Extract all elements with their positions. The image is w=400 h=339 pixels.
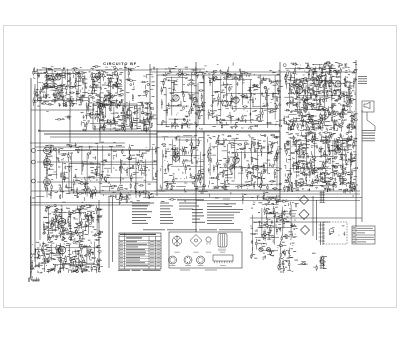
tube V15 output <box>58 246 66 254</box>
choke L4 lower <box>320 256 326 269</box>
wire psu rail 2 <box>253 221 330 223</box>
wire tube row 2 <box>37 161 157 163</box>
speaker symbol <box>364 102 370 109</box>
svg-text:CIRCUITO BF: CIRCUITO BF <box>103 61 137 66</box>
stage cluster col A bottom interior <box>160 135 205 191</box>
stage box top col A <box>157 75 204 125</box>
pilot lamp L1 <box>259 247 263 251</box>
pilot lamp L2 <box>266 247 270 251</box>
tube V6 col A top <box>173 95 179 101</box>
caption under tube socket box <box>180 269 217 272</box>
wire bus x280 <box>279 62 281 200</box>
stage cluster right top <box>283 62 358 132</box>
wire left vert x150 <box>149 64 151 150</box>
tube V1 input stage <box>44 147 51 154</box>
wire tube row 3 <box>37 181 157 183</box>
tube V9 right top outer <box>335 81 341 87</box>
wire top rail left <box>36 69 152 71</box>
feedback network box top-left <box>93 104 137 129</box>
wire bus x157 <box>156 68 158 196</box>
stage box bottom col A <box>157 132 204 190</box>
wire bus x196 <box>195 62 197 232</box>
wire x112 vert <box>112 196 114 262</box>
wire mid rail bundle 3 <box>50 136 196 138</box>
parts inside power enclosure <box>329 226 345 236</box>
wire top rail center <box>150 71 356 73</box>
wire left bus C <box>39 92 41 240</box>
stage cluster col B bottom interior <box>207 134 282 190</box>
wire left row rail 2 <box>35 146 125 148</box>
text block right top <box>358 76 367 84</box>
stage box top col B <box>204 75 280 125</box>
notes text block <box>132 199 243 224</box>
output stage cluster bottom-left lower <box>30 241 102 274</box>
tube V12 right bottom <box>297 149 303 155</box>
wires below top-left <box>38 112 85 131</box>
tube V2 input stage <box>44 159 51 166</box>
output stage cluster bottom-left upper <box>43 204 103 241</box>
wire lower rail long <box>31 190 360 192</box>
wire lower rail 3 <box>150 197 362 199</box>
wire rectifier feed 2 <box>316 200 318 240</box>
tube socket diagram box <box>169 232 243 268</box>
input jack J2 <box>32 160 36 164</box>
wire bus x109 <box>108 196 110 268</box>
wire mid rail bundle 2 <box>44 133 157 135</box>
parts above col B box <box>200 62 241 75</box>
wire bus x362 <box>361 110 363 222</box>
wire lower rail 4 <box>196 200 360 202</box>
power supply cluster <box>250 196 299 260</box>
valve data table <box>119 233 161 269</box>
amplifier stage cluster top-left <box>33 66 124 107</box>
stage cluster col A top interior <box>161 69 206 129</box>
stage box bottom col B <box>204 132 280 190</box>
speaker box right <box>362 101 374 112</box>
stage cluster right bottom <box>284 131 358 193</box>
wire top rail center 2 <box>150 68 205 70</box>
dashed enclosure power section <box>324 222 347 244</box>
stage cluster mid-left <box>44 142 160 201</box>
wire left vert x125 <box>124 64 126 131</box>
motor run capacitor inside enclosure <box>329 229 334 234</box>
parts right of feedback box <box>138 103 157 133</box>
wire tube row 1 <box>37 150 150 152</box>
wire strip mid <box>32 190 354 206</box>
wire psu rail <box>250 217 362 219</box>
tube V7 col B top <box>233 97 239 103</box>
wire lower rail 5 <box>31 202 150 204</box>
tube V5 top-left <box>95 73 101 79</box>
bridge rectifier D3 <box>301 226 310 235</box>
sparse parts right of top-left <box>124 67 155 101</box>
wire left row rail 1 <box>30 142 125 144</box>
tube V3 input stage <box>44 179 51 186</box>
wire bottomleft bus <box>30 196 32 278</box>
bridge rectifier D1 <box>300 196 309 205</box>
caption line under notes <box>143 228 241 231</box>
wire below top-left block <box>31 109 93 111</box>
tube V4 top-left <box>55 74 61 80</box>
wire left bus B <box>34 84 36 262</box>
top wiring labels row <box>153 66 197 72</box>
wire rectifier feed 1 <box>312 196 314 236</box>
power transformer T1 <box>319 222 325 245</box>
wire lower rail 2 <box>100 193 360 195</box>
tube V13 right bottom outer <box>335 147 341 153</box>
wire left bus A <box>30 78 32 280</box>
input jack J1 <box>32 149 36 153</box>
tube V10 col A bottom <box>173 155 179 161</box>
bridge rectifier D2 <box>299 210 309 220</box>
wire mid rail bundle 1 <box>38 130 280 132</box>
tube V14 output <box>58 218 66 226</box>
tube V8 right top <box>297 87 303 93</box>
wire left lower stub <box>31 204 150 206</box>
network box mid-left <box>69 164 100 194</box>
tube V11 col B bottom <box>233 157 239 163</box>
choke L3 upper <box>320 191 326 204</box>
wire bus x356 <box>355 60 357 226</box>
caption under valve table <box>118 270 161 271</box>
small cluster right of psu <box>312 253 327 271</box>
wire to speaker <box>367 112 375 131</box>
amplifier stage cluster top-left lower <box>84 100 154 132</box>
wire left vert x70 <box>69 72 71 143</box>
stage cluster col B top interior <box>208 69 283 129</box>
text block right mid <box>362 130 375 141</box>
legend table <box>352 226 375 244</box>
wire left vert x100 <box>99 96 101 143</box>
wire bottomleft right bus <box>98 200 100 262</box>
input jack J3 <box>32 179 36 183</box>
small marks bottom-left corner <box>28 276 39 282</box>
switch cluster bottom-center <box>278 257 308 273</box>
